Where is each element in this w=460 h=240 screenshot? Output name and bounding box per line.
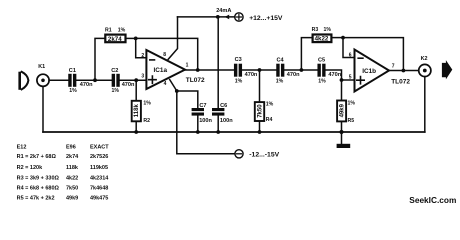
op-amp IC1b: [355, 50, 390, 92]
wire R4 to ground: [259, 121, 261, 132]
svg-text:8: 8: [163, 52, 166, 58]
resistor R4: [255, 102, 264, 121]
wire node to R4: [259, 70, 261, 102]
resistor R3: [313, 35, 332, 43]
svg-text:24mA: 24mA: [216, 8, 231, 14]
svg-text:1%: 1%: [143, 101, 151, 107]
wire pin 8 stub: [168, 17, 177, 59]
svg-text:E96: E96: [66, 144, 76, 150]
svg-text:470n: 470n: [245, 72, 258, 78]
svg-text:R1 = 2k7 + 68Ω: R1 = 2k7 + 68Ω: [17, 154, 57, 160]
wire -V line: [177, 91, 235, 154]
svg-text:C5: C5: [318, 58, 325, 64]
node feedback R3: [341, 36, 345, 40]
node pin5 / R5 top: [340, 78, 344, 82]
svg-text:2k74: 2k74: [108, 36, 122, 43]
capacitor C2: [112, 74, 120, 87]
resistor R1: [105, 35, 125, 43]
supply terminal +12...+15V: [235, 13, 243, 21]
svg-text:R3 = 3k9 + 330Ω: R3 = 3k9 + 330Ω: [17, 176, 60, 182]
wire R5 to ground: [341, 122, 343, 132]
wire pin 4 stub: [170, 80, 177, 91]
svg-text:1%: 1%: [69, 88, 77, 94]
svg-text:119k05: 119k05: [90, 165, 108, 171]
svg-text:IC1a: IC1a: [154, 67, 168, 74]
svg-text:R5 = 47k + 2k2: R5 = 47k + 2k2: [17, 196, 55, 202]
connector K1: [37, 74, 49, 86]
svg-text:R2 = 120k: R2 = 120k: [17, 165, 43, 171]
svg-text:1%: 1%: [324, 27, 332, 33]
svg-text:C6: C6: [220, 103, 227, 109]
svg-text:R4 = 6k8 + 680Ω: R4 = 6k8 + 680Ω: [17, 185, 60, 191]
wire node to R1 (riser): [95, 38, 105, 80]
svg-text:1%: 1%: [348, 100, 356, 106]
capacitor C7: [192, 108, 204, 116]
svg-text:49k9: 49k9: [340, 103, 346, 117]
wire +V top rail: [178, 16, 218, 18]
svg-text:R3: R3: [312, 27, 319, 33]
svg-text:1%: 1%: [318, 79, 326, 85]
wire node to pin 5: [342, 79, 355, 81]
supply terminal -12...-15V: [235, 150, 243, 158]
node feedback R1: [134, 37, 138, 41]
wire feedback to pin 6: [343, 38, 355, 58]
wire K1 to ground rail: [42, 86, 44, 132]
wire pin4 to C7: [177, 91, 198, 108]
capacitor C6: [212, 108, 224, 116]
capacitor C3: [234, 64, 242, 77]
node C6 ground: [216, 130, 220, 134]
svg-text:C4: C4: [277, 58, 285, 64]
svg-text:1%: 1%: [235, 79, 243, 85]
node R5 ground: [339, 130, 343, 134]
svg-text:49k475: 49k475: [90, 196, 108, 202]
svg-text:6: 6: [349, 52, 352, 58]
wire to +V terminal: [218, 16, 235, 18]
svg-text:EXACT: EXACT: [90, 144, 109, 150]
wire C5 to pin 5: [326, 70, 342, 80]
svg-text:2k7526: 2k7526: [90, 154, 108, 160]
wire C6 to ground: [217, 116, 219, 132]
svg-text:C2: C2: [111, 68, 118, 74]
svg-text:2: 2: [141, 53, 144, 59]
node R4 ground: [258, 130, 262, 134]
svg-text:118k: 118k: [134, 104, 140, 118]
svg-text:100n: 100n: [220, 118, 233, 124]
svg-text:R4: R4: [266, 117, 273, 123]
svg-text:4: 4: [164, 81, 167, 87]
capacitor C1: [68, 74, 76, 87]
node supply 24mA: [216, 15, 220, 19]
node C7 ground: [196, 130, 200, 134]
op-amp IC1a: [146, 50, 185, 89]
table of resistor values: [17, 144, 110, 201]
connector K2: [419, 64, 431, 76]
capacitor C4: [276, 64, 284, 77]
node pin4 / -V: [175, 89, 179, 93]
wire IC1a output to C3: [185, 69, 234, 71]
node C1-C2 junction: [93, 78, 97, 82]
svg-text:1%: 1%: [118, 27, 126, 33]
svg-text:1: 1: [186, 63, 189, 69]
svg-text:470n: 470n: [122, 82, 135, 88]
input arrow symbol: [20, 72, 29, 90]
svg-text:7: 7: [392, 63, 395, 69]
svg-text:4k22: 4k22: [66, 176, 78, 182]
svg-text:100n: 100n: [199, 118, 212, 124]
wire K1 to C1: [49, 79, 68, 81]
wire R3 to feedback node: [332, 37, 344, 39]
svg-text:7k4648: 7k4648: [90, 185, 108, 191]
wire feedback to pin 2: [136, 38, 147, 57]
svg-text:7k50: 7k50: [66, 185, 78, 191]
node IC1a output: [196, 68, 200, 72]
svg-text:5: 5: [349, 74, 352, 80]
svg-text:4k2314: 4k2314: [90, 176, 109, 182]
svg-text:R1: R1: [105, 27, 112, 33]
arrowhead current direction: [225, 15, 230, 20]
svg-text:4k22: 4k22: [315, 36, 329, 43]
wire C4 to C5: [284, 69, 317, 71]
wire C2 to pin 3: [120, 79, 147, 81]
svg-text:C1: C1: [69, 68, 76, 74]
svg-text:TL072: TL072: [391, 79, 410, 86]
svg-text:-12...-15V: -12...-15V: [249, 151, 279, 158]
svg-text:1%: 1%: [112, 88, 120, 94]
svg-text:2k74: 2k74: [66, 154, 79, 160]
svg-text:470n: 470n: [287, 72, 300, 78]
svg-text:1%: 1%: [266, 102, 274, 108]
wire C3 to C4: [242, 69, 276, 71]
output arrow symbol: [442, 60, 452, 79]
svg-text:TL072: TL072: [186, 77, 205, 84]
svg-text:IC1b: IC1b: [362, 68, 376, 75]
svg-text:1%: 1%: [276, 79, 284, 85]
wire +V down to C6: [217, 17, 219, 108]
svg-text:3: 3: [141, 74, 144, 80]
svg-text:C3: C3: [235, 57, 242, 63]
node R3 bottom: [300, 68, 304, 72]
capacitor C5: [317, 64, 325, 77]
node IC1b output: [402, 69, 406, 73]
svg-text:C7: C7: [199, 103, 206, 109]
svg-text:118k: 118k: [66, 165, 79, 171]
svg-text:R5: R5: [348, 118, 355, 124]
node R4 top: [258, 68, 262, 72]
ground symbol: [341, 132, 343, 144]
ground rail: [43, 131, 425, 133]
resistor R5: [341, 80, 343, 100]
wire IC1b output to K2: [389, 70, 419, 72]
wire node to R3 (riser): [301, 38, 311, 70]
wire feedback to output: [136, 38, 198, 70]
svg-text:E12: E12: [17, 144, 27, 150]
wire K2 to ground rail: [424, 77, 426, 132]
svg-text:7k50: 7k50: [258, 104, 264, 118]
svg-text:SeekIC.com: SeekIC.com: [409, 195, 456, 205]
svg-text:49k9: 49k9: [66, 196, 78, 202]
wire R2 to ground: [135, 122, 137, 132]
wire R1 to feedback node: [126, 37, 136, 39]
svg-text:R2: R2: [143, 118, 150, 124]
resistor R2: [135, 80, 137, 100]
svg-text:K1: K1: [38, 64, 45, 70]
svg-text:K2: K2: [421, 56, 428, 62]
node R2 ground: [134, 130, 138, 134]
wire C7 to ground: [197, 116, 199, 132]
wire feedback to output: [343, 38, 403, 71]
node pin3 / R2 top: [134, 78, 138, 82]
svg-text:+12...+15V: +12...+15V: [249, 15, 283, 22]
svg-text:470n: 470n: [80, 82, 93, 88]
wire C1 to C2: [76, 79, 111, 81]
svg-text:470n: 470n: [328, 72, 341, 78]
